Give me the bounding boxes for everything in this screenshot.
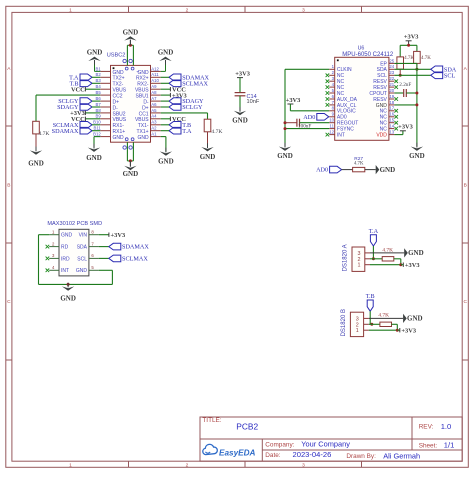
svg-text:GND: GND	[277, 152, 293, 160]
net flag T.A (A2)	[169, 127, 181, 134]
wire CC1 to resistor	[161, 112, 208, 114]
svg-text:B4: B4	[96, 84, 102, 89]
svg-text:4.7K: 4.7K	[378, 313, 389, 319]
junction	[415, 103, 418, 106]
svg-text:B5: B5	[96, 90, 102, 95]
no-connect X marks U6 right	[394, 79, 398, 83]
capacitor 2.2nF (CPOUT)	[394, 92, 403, 94]
svg-text:SCL: SCL	[444, 72, 456, 79]
svg-text:10nF: 10nF	[247, 99, 260, 105]
svg-text:B6: B6	[96, 96, 102, 101]
wire resistor to +3V3	[394, 258, 401, 260]
junction	[372, 257, 375, 260]
wire resistor to +3V3	[392, 323, 398, 325]
svg-text:Drawn By:: Drawn By:	[346, 453, 376, 460]
svg-text:Company:: Company:	[265, 442, 294, 449]
svg-text:100nF: 100nF	[298, 124, 311, 130]
net flag SCLMAX (A10)	[169, 80, 181, 87]
ground GND bottom B12	[93, 144, 95, 149]
wire pullup bar	[400, 44, 417, 46]
wire T.B to pin 2	[369, 311, 371, 324]
net flag SDA	[431, 66, 443, 73]
ground GND bottom A1	[165, 148, 167, 153]
ground GND netport (R27)	[376, 165, 380, 174]
svg-text:13: 13	[389, 130, 394, 135]
svg-text:B8: B8	[96, 108, 102, 113]
junction SCL	[399, 74, 402, 77]
connector MAX30102 body	[59, 229, 89, 276]
svg-text:GND: GND	[407, 315, 423, 323]
svg-text:A9: A9	[151, 84, 157, 89]
junction	[284, 127, 287, 130]
svg-text:A2: A2	[151, 126, 157, 131]
svg-text:A12: A12	[151, 66, 159, 71]
wire pin3 to GND	[370, 252, 404, 254]
svg-text:C: C	[463, 299, 467, 305]
junction	[370, 323, 373, 326]
svg-text:VDD: VDD	[376, 133, 387, 139]
no-connect X marks U6 left	[326, 74, 330, 78]
ground GND below right resistor	[207, 143, 209, 148]
svg-text:GND: GND	[76, 268, 88, 274]
title block	[200, 417, 462, 461]
svg-text:B10: B10	[93, 120, 101, 125]
svg-text:B1: B1	[96, 66, 102, 71]
svg-text:23: 23	[389, 70, 394, 75]
net flag SDAGY (B7)	[80, 104, 92, 111]
wire GND net right of U6	[416, 69, 418, 146]
svg-text:C: C	[7, 299, 11, 305]
svg-text:3: 3	[302, 7, 305, 13]
power flag +3V3 (DS1820 B)	[397, 329, 400, 331]
svg-text:2.2nF: 2.2nF	[399, 82, 411, 88]
svg-text:T.A: T.A	[369, 228, 379, 235]
svg-text:GND: GND	[86, 154, 102, 162]
svg-text:GND: GND	[158, 157, 174, 165]
svg-text:GND: GND	[137, 135, 149, 141]
power flag +3V3 (VDD)	[394, 134, 403, 136]
svg-text:GND: GND	[113, 135, 125, 141]
wire A1 to GND	[161, 136, 166, 138]
power flag +3V3 (A8)	[161, 94, 171, 96]
capacitor C14 10nF	[235, 92, 246, 94]
ground GND (MAX30102)	[67, 283, 69, 288]
svg-text:19: 19	[389, 94, 394, 99]
svg-text:15: 15	[389, 118, 394, 123]
net flag SCLMAX (MAX30102)	[99, 257, 109, 259]
power flag VCC (A9)	[161, 88, 171, 90]
svg-text:4.7K: 4.7K	[354, 161, 364, 166]
wire pin3 to GND	[369, 317, 403, 319]
power flag +3V3 (B8)	[85, 112, 100, 114]
junction	[396, 329, 399, 332]
wire C14 to GND	[239, 96, 241, 111]
wire SDA to flag	[394, 68, 430, 70]
ground GND netport (DS1820 A)	[404, 248, 408, 257]
svg-text:+3V3: +3V3	[401, 327, 416, 334]
svg-text:GND: GND	[200, 153, 216, 161]
connector DS1820 B body	[350, 312, 363, 336]
svg-text:B12: B12	[93, 132, 101, 137]
svg-text:GND: GND	[409, 152, 425, 160]
wire CLKIN/FSYNC/GND net left of U6	[285, 68, 329, 70]
svg-text:AD0: AD0	[316, 167, 328, 174]
junction	[129, 44, 132, 47]
power flag +3V3 (C14)	[237, 77, 243, 79]
wire R27 to GND	[365, 169, 376, 171]
svg-text:A8: A8	[151, 90, 157, 95]
svg-text:B9: B9	[96, 114, 102, 119]
resistor R27 4.7K	[353, 167, 365, 171]
wire EP	[394, 62, 417, 64]
svg-text:Sheet:: Sheet:	[419, 442, 438, 449]
svg-text:GND: GND	[123, 170, 139, 178]
svg-text:B: B	[7, 183, 10, 189]
power flag VCC (B4)	[85, 88, 100, 90]
net flag T.B	[367, 300, 373, 311]
no-connect X marks MAX30102	[46, 245, 50, 249]
resistor 4.7K (DS1820 B pullup)	[380, 322, 392, 326]
power flag +3V3 (VIN)	[99, 234, 109, 236]
svg-text:AD0: AD0	[303, 114, 315, 121]
USBC2 shield pin circles bottom	[123, 146, 126, 149]
svg-text:GND: GND	[158, 49, 174, 57]
USBC2 pins left stubs and numbers	[100, 70, 110, 72]
svg-text:4.7K: 4.7K	[38, 131, 49, 137]
svg-text:14: 14	[389, 124, 394, 129]
svg-text:+3V3: +3V3	[398, 124, 413, 131]
svg-text:1: 1	[356, 328, 359, 334]
svg-text:2023-04-26: 2023-04-26	[293, 450, 332, 459]
svg-text:REV:: REV:	[419, 424, 434, 431]
wire SCL to flag	[394, 74, 430, 76]
svg-text:A6: A6	[151, 102, 157, 107]
svg-text:2: 2	[186, 7, 189, 13]
svg-text:1: 1	[69, 462, 72, 468]
svg-text:A7: A7	[151, 96, 157, 101]
svg-text:RD: RD	[61, 245, 69, 251]
resistor 4.7K pullup SCL	[399, 45, 401, 57]
connector DS1820 A body	[352, 247, 365, 271]
svg-text:+3V3: +3V3	[235, 70, 250, 77]
svg-text:VCC: VCC	[71, 86, 85, 93]
svg-text:VIN: VIN	[79, 233, 88, 239]
ground GND below right of U6	[416, 143, 418, 148]
svg-text:A4: A4	[151, 114, 157, 119]
svg-text:MAX30102 PCB SMD: MAX30102 PCB SMD	[47, 221, 102, 227]
svg-text:SCLMAX: SCLMAX	[182, 80, 208, 87]
svg-text:12: 12	[329, 130, 334, 135]
svg-text:DS1820 B: DS1820 B	[341, 309, 347, 336]
net flag AD0 (pin 9)	[317, 114, 329, 121]
svg-text:DS1820 A: DS1820 A	[343, 244, 349, 271]
junction	[415, 92, 418, 95]
power flag +3V3 (DS1820 A)	[402, 263, 404, 267]
ground GND bottom center	[129, 162, 131, 167]
net flag SDAGY (A7)	[169, 98, 181, 105]
svg-text:SDAMAX: SDAMAX	[52, 128, 79, 135]
ground GND below C14	[239, 107, 241, 112]
wire T.A to pin 2	[372, 246, 374, 259]
wire GND loop MAX30102	[39, 234, 50, 236]
svg-text:+3V3: +3V3	[405, 262, 420, 269]
wire shield bottom to GND	[126, 142, 128, 161]
net flag T.B (A3)	[169, 122, 181, 129]
svg-text:B3: B3	[96, 78, 102, 83]
resistor 4.7K (CC2 pulldown)	[35, 120, 37, 122]
svg-text:PCB2: PCB2	[236, 422, 258, 432]
resistor 4.7K pullup SDA	[416, 45, 418, 51]
svg-text:~: ~	[136, 70, 139, 76]
svg-text:GND: GND	[87, 49, 103, 57]
svg-text:USBC2: USBC2	[107, 52, 126, 58]
svg-text:10: 10	[329, 118, 334, 123]
ground GND below CLKIN net	[284, 143, 286, 148]
svg-text:U6: U6	[358, 46, 365, 52]
net flag SCLGY (B6)	[80, 98, 92, 105]
EasyEDA logo	[203, 444, 218, 454]
svg-text:T.A: T.A	[182, 128, 192, 135]
svg-text:B: B	[464, 183, 467, 189]
wire pin1	[369, 329, 398, 331]
svg-text:24: 24	[389, 64, 394, 69]
svg-text:4.7K: 4.7K	[421, 56, 431, 61]
svg-text:1/1: 1/1	[444, 441, 455, 450]
svg-text:SCLMAX: SCLMAX	[122, 256, 148, 263]
svg-text:+3V3: +3V3	[286, 97, 301, 104]
svg-text:16: 16	[389, 112, 394, 117]
svg-text:INT: INT	[337, 133, 345, 139]
svg-text:TITLE:: TITLE:	[202, 417, 221, 424]
svg-text:Date:: Date:	[265, 452, 280, 459]
ground GND netport (DS1820 B)	[403, 314, 407, 323]
svg-text:GND: GND	[61, 233, 73, 239]
svg-text:GND: GND	[28, 159, 44, 167]
net flag SDAMAX (B11)	[80, 127, 92, 134]
svg-text:GND: GND	[232, 117, 248, 125]
svg-text:1: 1	[69, 7, 72, 13]
junction	[399, 263, 402, 266]
svg-text:GND: GND	[380, 166, 396, 174]
svg-text:+3V3: +3V3	[404, 34, 419, 41]
wire pin2 to resistor	[370, 258, 382, 260]
svg-text:B7: B7	[96, 102, 102, 107]
svg-text:18: 18	[389, 100, 394, 105]
svg-text:Your Company: Your Company	[301, 440, 350, 449]
svg-text:EasyEDA: EasyEDA	[219, 449, 255, 458]
wire pin2 to resistor	[369, 323, 380, 325]
power flag VCC (A4)	[161, 118, 171, 120]
net flag T.A (B2)	[80, 74, 92, 81]
junction	[284, 121, 287, 124]
svg-text:2: 2	[186, 462, 189, 468]
net flag AD0 (R27)	[330, 166, 342, 173]
wire A12 to GND	[165, 60, 167, 71]
svg-text:A1: A1	[151, 132, 157, 137]
MAX30102 pins	[49, 234, 59, 236]
svg-text:GND: GND	[60, 295, 76, 303]
power flag +3V3 (pullups)	[406, 40, 412, 42]
svg-text:GND: GND	[408, 249, 424, 257]
svg-text:21: 21	[389, 82, 394, 87]
U6 pins right	[389, 62, 395, 64]
svg-text:3: 3	[302, 462, 305, 468]
capacitor 100nF (REGOUT)	[285, 122, 297, 124]
wire AD0 to R27	[342, 169, 353, 171]
svg-text:A11: A11	[151, 72, 159, 77]
svg-text:IRD: IRD	[61, 256, 70, 262]
svg-text:B2: B2	[96, 72, 102, 77]
svg-text:20: 20	[389, 88, 394, 93]
svg-text:SCL: SCL	[77, 256, 87, 262]
U6 pins left	[329, 68, 335, 70]
svg-text:22: 22	[389, 76, 394, 81]
junction	[67, 283, 70, 286]
resistor 4.7K (CC1 pulldown)	[207, 118, 209, 120]
wire pin1	[370, 264, 401, 266]
wire B12 to GND	[94, 136, 100, 138]
wire +3V3 to C14	[239, 78, 241, 93]
svg-text:INT: INT	[61, 268, 69, 274]
svg-text:11: 11	[330, 124, 335, 129]
svg-text:SDA: SDA	[77, 245, 88, 251]
svg-text:MPU-6050 C24112: MPU-6050 C24112	[342, 52, 394, 58]
svg-text:1.0: 1.0	[441, 422, 452, 431]
svg-text:25: 25	[389, 58, 394, 63]
svg-text:4.7K: 4.7K	[404, 56, 414, 61]
junction	[129, 159, 132, 162]
svg-text:4.7K: 4.7K	[211, 129, 222, 135]
svg-text:B11: B11	[93, 126, 101, 131]
svg-text:A5: A5	[151, 108, 157, 113]
svg-text:A10: A10	[151, 78, 159, 83]
op-amp U6 MPU-6050 body	[335, 57, 389, 140]
net flag SDAMAX (A11)	[169, 74, 181, 81]
wire CC2 to resistor	[36, 94, 100, 96]
svg-text:+3V3: +3V3	[111, 232, 126, 239]
net flag SDAMAX (MAX30102)	[99, 246, 109, 248]
junction SDA	[415, 68, 418, 71]
junction	[407, 44, 410, 47]
net flag SCLMAX (B10)	[80, 122, 92, 129]
net flag T.A	[370, 235, 376, 246]
connector USBC2 body	[111, 65, 151, 142]
wire shield top to GND	[126, 45, 128, 65]
svg-text:17: 17	[389, 106, 394, 111]
resistor 4.7K (DS1820 A pullup)	[382, 257, 394, 261]
USBC2 pins right stubs and numbers	[151, 70, 161, 72]
net flag T.B (B3)	[80, 80, 92, 87]
svg-text:T.B: T.B	[366, 293, 375, 300]
ground GND below left resistor	[35, 147, 37, 152]
svg-text:Ali Germah: Ali Germah	[383, 451, 420, 460]
svg-text:GND: GND	[123, 28, 139, 36]
svg-text:SDAMAX: SDAMAX	[122, 244, 149, 251]
power flag VCC (B9)	[85, 118, 100, 120]
power flag +3V3 (VLOGIC)	[287, 103, 293, 105]
wire B1 to GND	[94, 60, 96, 71]
svg-text:A3: A3	[151, 120, 157, 125]
svg-text:4.7K: 4.7K	[382, 248, 393, 254]
USBC2 shield pin circles top	[123, 59, 126, 62]
svg-text:SCLGY: SCLGY	[182, 104, 203, 111]
svg-text:1: 1	[358, 263, 361, 269]
net flag SCLGY (A6)	[169, 104, 181, 111]
net flag SCL	[431, 72, 443, 79]
